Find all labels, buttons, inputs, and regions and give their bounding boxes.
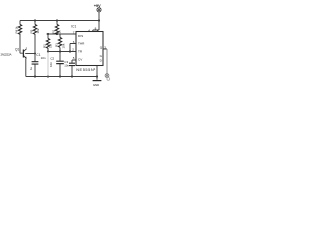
transistor Q1 (23, 47, 26, 59)
capacitor C2 (56, 61, 64, 63)
svg-text:NE555N: NE555N (76, 67, 94, 72)
output terminal pad (105, 74, 110, 81)
wire R2 column (47, 34, 49, 52)
svg-text:R5: R5 (30, 29, 34, 33)
node ground R2 col (47, 75, 49, 77)
wire pin3 output (103, 48, 107, 50)
node DIS/R1 junction (56, 33, 58, 35)
svg-text:R4 1k: R4 1k (15, 26, 19, 34)
svg-text:Q: Q (100, 45, 103, 49)
svg-text:DIS: DIS (78, 34, 83, 38)
resistor R3 (58, 38, 61, 48)
wire R1 column (56, 21, 58, 34)
svg-text:1k: 1k (58, 30, 62, 34)
resistor R1 (55, 25, 58, 35)
wire base horizontal to C1 column (25, 53, 35, 55)
svg-text:GND: GND (93, 83, 100, 87)
svg-text:CV: CV (78, 58, 83, 62)
svg-text:1u: 1u (29, 66, 33, 70)
resistor R4 (18, 25, 21, 35)
svg-text:+9V: +9V (94, 3, 101, 8)
wire faint R2 lower (47, 52, 49, 77)
wire R4 column down to Q1 base (20, 21, 23, 54)
node base/C1 junction (34, 53, 36, 55)
svg-text:TR: TR (78, 50, 83, 54)
node DIS/R2 junction (47, 33, 49, 35)
node ground C3 (71, 75, 73, 77)
svg-text:THR: THR (78, 42, 85, 46)
wire C1 to ground (34, 65, 36, 77)
supply terminal +9V (97, 8, 101, 12)
capacitor C3 (69, 63, 75, 65)
wire R3 column (59, 34, 61, 52)
svg-text:2N2222A: 2N2222A (1, 53, 12, 57)
svg-text:IC1: IC1 (71, 25, 76, 29)
svg-text:R3: R3 (55, 43, 59, 47)
svg-text:10k: 10k (36, 28, 40, 33)
svg-text:10n: 10n (64, 63, 69, 67)
svg-text:10n: 10n (41, 56, 46, 60)
node bus-junction R5 (34, 19, 36, 21)
svg-text:R2: R2 (43, 44, 47, 48)
resistor R5 (33, 25, 36, 35)
wire +9V top bus (20, 20, 99, 22)
node bus-junction R1 (56, 19, 58, 21)
wire pin1 GND down (96, 66, 98, 80)
node TRG/THR junction (69, 50, 71, 52)
node TRG/R2 junction (47, 50, 49, 52)
wire C3 to ground (71, 66, 73, 77)
svg-text:10k: 10k (61, 43, 65, 48)
resistor R2 (46, 39, 49, 49)
wire CV pin 5 to C3 (72, 60, 76, 63)
node ground C2 (59, 75, 61, 77)
svg-text:10n: 10n (49, 62, 53, 67)
svg-text:1: 1 (94, 67, 96, 71)
svg-text:Q1: Q1 (15, 48, 19, 52)
node bus-junction supply (98, 19, 100, 21)
wire C2 to ground (59, 52, 61, 77)
wire DIS rail to pin 7 (47, 33, 77, 35)
node ground pin1 (96, 75, 98, 77)
svg-text:D: D (100, 58, 103, 62)
svg-text:1M: 1M (49, 43, 53, 48)
svg-text:2: 2 (72, 48, 74, 52)
ground symbol (93, 80, 102, 82)
IC U1 NE555N box (76, 32, 103, 66)
node TRG/R3 junction (59, 50, 61, 52)
svg-text:C2: C2 (50, 57, 54, 61)
wire THR pin 6 link (70, 44, 76, 52)
node ground C1 (34, 75, 36, 77)
wire TRG rail to pin 2 (48, 51, 77, 53)
svg-text:R1: R1 (52, 29, 56, 33)
wire Q1 emitter to ground (25, 59, 27, 77)
capacitor C1 (32, 62, 39, 64)
wire R5 column down to base node (34, 21, 36, 62)
wire ground rail (26, 76, 97, 78)
wire +9V drop to IC (93, 12, 99, 32)
